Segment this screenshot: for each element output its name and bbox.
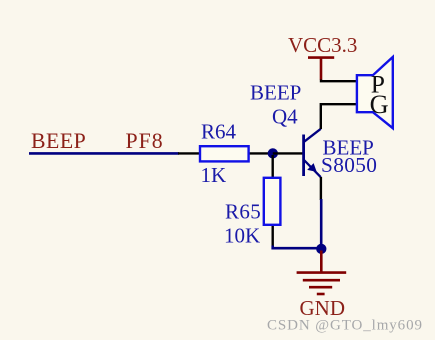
wire base (junction to Q4 base) xyxy=(273,152,304,154)
transistor Q4 xyxy=(304,129,321,177)
wire emitter to junction node 2 xyxy=(320,199,323,248)
svg-text:PF8: PF8 xyxy=(126,129,164,153)
wire collector to speaker pin G xyxy=(321,104,357,129)
svg-text:S8050: S8050 xyxy=(321,153,377,177)
ground xyxy=(297,251,347,295)
svg-text:GND: GND xyxy=(300,296,346,320)
wire (R65 bottom to junction node 2) xyxy=(273,246,322,249)
wire VCC to speaker pin P xyxy=(321,80,357,82)
resistor R65 xyxy=(264,155,281,247)
svg-text:G: G xyxy=(370,90,389,119)
power port VCC3.3 xyxy=(308,58,334,80)
svg-text:BEEP: BEEP xyxy=(31,129,86,153)
svg-text:Q4: Q4 xyxy=(272,104,298,128)
junction node 2 xyxy=(316,244,326,254)
speaker LS1 xyxy=(357,57,393,128)
svg-text:R65: R65 xyxy=(225,200,261,224)
svg-text:BEEP: BEEP xyxy=(250,81,301,105)
junction node 1 xyxy=(268,148,278,158)
svg-text:10K: 10K xyxy=(224,224,260,248)
svg-text:R64: R64 xyxy=(201,120,237,144)
resistor R64 xyxy=(178,146,273,161)
svg-text:VCC3.3: VCC3.3 xyxy=(288,33,357,57)
svg-text:1K: 1K xyxy=(201,163,227,187)
svg-text:CSDN @GTO_lmy609: CSDN @GTO_lmy609 xyxy=(267,318,423,334)
wire emitter pin xyxy=(320,177,322,200)
wire net BEEP (horizontal from label to R64) xyxy=(29,152,179,155)
